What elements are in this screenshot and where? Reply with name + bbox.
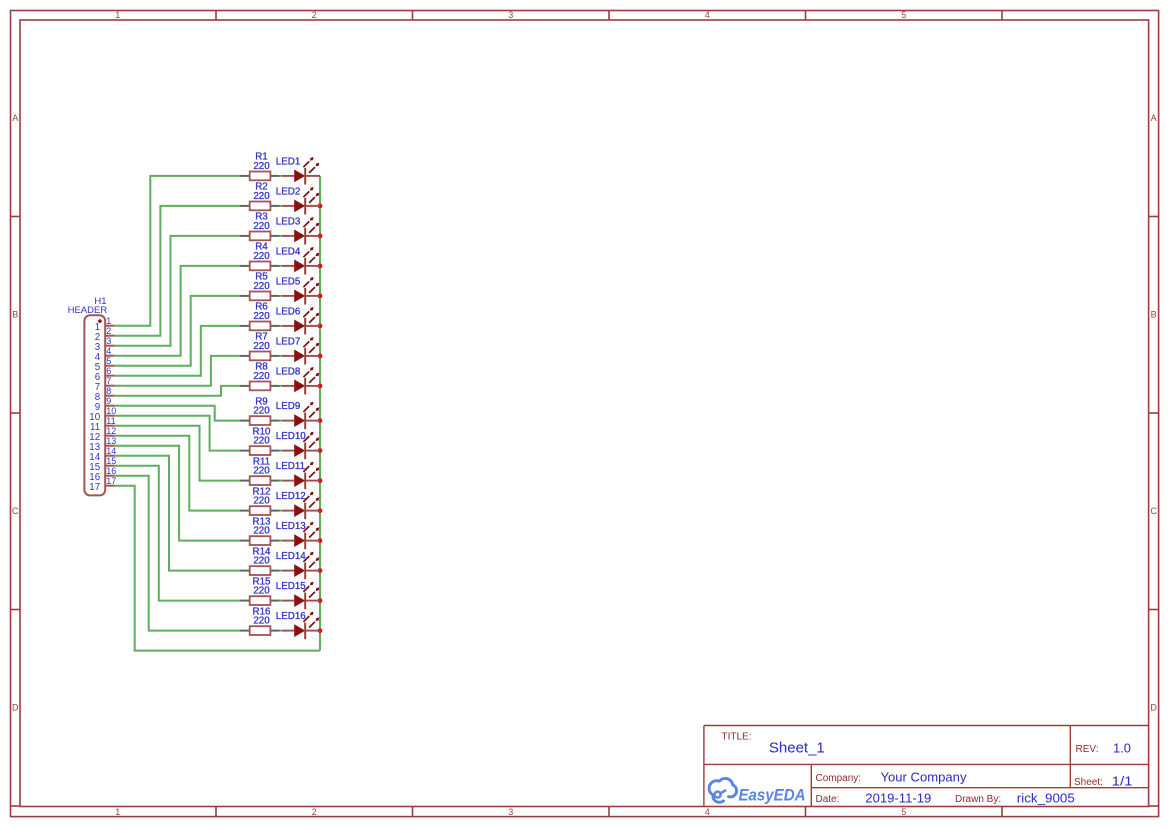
- resistor R3 220: [240, 212, 280, 241]
- LED LED6: [276, 306, 320, 334]
- wire R13 to LED13: [280, 540, 282, 542]
- svg-text:1: 1: [106, 316, 111, 326]
- svg-text:12: 12: [106, 426, 116, 436]
- junction at LED5 cathode: [318, 294, 323, 299]
- svg-text:LED14: LED14: [276, 551, 307, 562]
- junction at LED11 cathode: [318, 478, 323, 483]
- svg-text:1.0: 1.0: [1113, 742, 1131, 756]
- svg-text:3: 3: [508, 807, 513, 817]
- svg-text:R13: R13: [253, 516, 272, 527]
- resistor R16 220: [240, 606, 280, 635]
- svg-text:17: 17: [106, 476, 116, 486]
- svg-text:11: 11: [106, 416, 115, 426]
- svg-text:LED9: LED9: [276, 401, 301, 412]
- svg-text:3: 3: [106, 336, 111, 346]
- LED LED5: [276, 276, 320, 304]
- svg-text:TITLE:: TITLE:: [722, 731, 752, 742]
- svg-text:rick_9005: rick_9005: [1017, 792, 1075, 806]
- svg-text:5: 5: [901, 807, 906, 817]
- resistor R1 220: [240, 152, 280, 181]
- svg-text:LED12: LED12: [276, 491, 306, 502]
- wire R12 to LED12: [280, 510, 282, 512]
- svg-text:Your Company: Your Company: [881, 771, 968, 785]
- svg-text:R5: R5: [255, 272, 268, 283]
- resistor R10 220: [240, 426, 280, 455]
- svg-text:10: 10: [106, 406, 116, 416]
- svg-text:C: C: [1150, 506, 1157, 516]
- pin 10 of H1: [89, 406, 116, 423]
- resistor R8 220: [240, 362, 280, 391]
- pin 13 of H1: [89, 436, 116, 453]
- svg-text:14: 14: [106, 446, 116, 456]
- resistor R13 220: [240, 516, 280, 545]
- svg-text:R9: R9: [255, 396, 268, 407]
- wire R9 to LED9: [280, 420, 282, 422]
- LED LED12: [276, 491, 320, 519]
- LED LED4: [276, 246, 320, 274]
- svg-text:2: 2: [312, 10, 317, 20]
- wire H1 pin 8 to R8: [115, 386, 240, 396]
- wire H1 pin 14 to R14: [115, 456, 240, 571]
- LED LED15: [276, 581, 320, 609]
- wire H1 pin 17 to cathode bus (bottom return): [115, 486, 320, 651]
- svg-text:4: 4: [705, 807, 710, 817]
- svg-text:EasyEDA: EasyEDA: [739, 787, 806, 805]
- svg-text:7: 7: [106, 376, 111, 386]
- LED LED1: [276, 156, 320, 184]
- svg-text:R1: R1: [255, 152, 268, 163]
- wire R5 to LED5: [280, 295, 282, 297]
- pin 3 of H1: [95, 336, 115, 353]
- svg-text:9: 9: [106, 396, 111, 406]
- junction at LED16 cathode: [318, 628, 323, 633]
- wire H1 pin 5 to R5: [115, 296, 240, 366]
- resistor R2 220: [240, 182, 280, 211]
- svg-text:D: D: [1150, 702, 1157, 712]
- junction at LED6 cathode: [318, 324, 323, 329]
- svg-text:LED16: LED16: [276, 611, 307, 622]
- svg-text:6: 6: [106, 366, 111, 376]
- pin 6 of H1: [95, 366, 115, 383]
- pin 14 of H1: [89, 446, 116, 463]
- svg-text:1/1: 1/1: [1112, 774, 1133, 788]
- svg-text:R4: R4: [255, 242, 268, 253]
- wire H1 pin 10 to R10: [115, 416, 240, 451]
- LED LED8: [276, 366, 320, 394]
- junction at LED4 cathode: [318, 264, 323, 269]
- svg-text:R11: R11: [253, 456, 270, 467]
- svg-text:LED11: LED11: [276, 461, 305, 472]
- pin 1 of H1: [95, 316, 115, 333]
- svg-text:D: D: [12, 702, 19, 712]
- pin 2 of H1: [95, 326, 115, 343]
- resistor R4 220: [240, 242, 280, 271]
- resistor R7 220: [240, 332, 280, 361]
- pin 9 of H1: [95, 396, 115, 413]
- svg-text:R3: R3: [255, 212, 268, 223]
- wire R3 to LED3: [280, 235, 282, 237]
- wire H1 pin 15 to R15: [115, 466, 240, 601]
- wire R1 to LED1: [280, 175, 282, 177]
- wire H1 pin 7 to R7: [115, 356, 240, 386]
- wire R7 to LED7: [280, 355, 282, 357]
- svg-text:13: 13: [106, 436, 116, 446]
- LED LED7: [276, 336, 320, 364]
- wire cathode bus vertical: [319, 176, 321, 651]
- LED LED11: [276, 461, 320, 489]
- svg-text:Company:: Company:: [816, 773, 862, 784]
- resistor R11 220: [240, 456, 280, 485]
- wire R2 to LED2: [280, 205, 282, 207]
- svg-text:5: 5: [106, 356, 111, 366]
- svg-text:2: 2: [312, 807, 317, 817]
- resistor R15 220: [240, 576, 280, 605]
- LED LED16: [276, 611, 320, 639]
- svg-text:R10: R10: [253, 426, 272, 437]
- wire H1 pin 11 to R11: [115, 426, 240, 481]
- pin 17 of H1: [89, 476, 116, 493]
- resistor R12 220: [240, 486, 280, 515]
- LED LED10: [276, 431, 320, 459]
- svg-text:LED5: LED5: [276, 276, 301, 287]
- svg-text:4: 4: [705, 10, 710, 20]
- junction at LED10 cathode: [318, 448, 323, 453]
- svg-text:LED13: LED13: [276, 521, 307, 532]
- svg-text:1: 1: [115, 807, 120, 817]
- junction at LED2 cathode: [318, 204, 323, 209]
- EasyEDA logo: [709, 778, 805, 804]
- resistor R5 220: [240, 272, 280, 301]
- svg-text:4: 4: [106, 346, 111, 356]
- svg-text:HEADER: HEADER: [68, 305, 108, 316]
- svg-text:LED6: LED6: [276, 306, 301, 317]
- junction at LED9 cathode: [318, 418, 323, 423]
- svg-text:LED4: LED4: [276, 246, 301, 257]
- svg-text:15: 15: [106, 456, 116, 466]
- svg-text:LED2: LED2: [276, 186, 301, 197]
- wire H1 pin 13 to R13: [115, 446, 240, 541]
- resistor R6 220: [240, 302, 280, 331]
- pin 8 of H1: [95, 386, 115, 403]
- svg-text:A: A: [12, 113, 18, 123]
- pin 4 of H1: [95, 346, 115, 363]
- svg-text:16: 16: [106, 466, 116, 476]
- svg-text:1: 1: [115, 10, 120, 20]
- svg-text:3: 3: [508, 10, 513, 20]
- svg-text:LED1: LED1: [276, 156, 301, 167]
- svg-text:R8: R8: [255, 362, 268, 373]
- pin 12 of H1: [89, 426, 116, 443]
- resistor R9 220: [240, 396, 280, 425]
- wire R16 to LED16: [280, 630, 282, 632]
- wire R11 to LED11: [280, 480, 282, 482]
- svg-text:LED8: LED8: [276, 366, 301, 377]
- junction at LED15 cathode: [318, 598, 323, 603]
- wire H1 pin 16 to R16: [115, 476, 240, 631]
- svg-text:LED15: LED15: [276, 581, 307, 592]
- wire H1 pin 3 to R3: [115, 236, 240, 346]
- LED LED3: [276, 216, 320, 244]
- junction at LED14 cathode: [318, 568, 323, 573]
- junction at LED13 cathode: [318, 538, 323, 543]
- svg-text:B: B: [1151, 309, 1157, 319]
- svg-text:LED3: LED3: [276, 216, 301, 227]
- junction at LED12 cathode: [318, 508, 323, 513]
- svg-text:A: A: [1151, 113, 1157, 123]
- wire R10 to LED10: [280, 450, 282, 452]
- svg-text:17: 17: [89, 482, 100, 493]
- svg-text:R7: R7: [255, 332, 268, 343]
- svg-text:LED7: LED7: [276, 336, 301, 347]
- svg-text:8: 8: [106, 386, 111, 396]
- pin 15 of H1: [89, 456, 116, 473]
- connector H1 HEADER body: [84, 315, 105, 495]
- wire R15 to LED15: [280, 600, 282, 602]
- svg-text:Sheet_1: Sheet_1: [769, 740, 825, 757]
- wire H1 pin 9 to R9: [115, 406, 240, 421]
- LED LED9: [276, 401, 320, 429]
- wire H1 pin 4 to R4: [115, 266, 240, 356]
- junction at LED8 cathode: [318, 384, 323, 389]
- junction at LED7 cathode: [318, 354, 323, 359]
- svg-text:R12: R12: [253, 486, 271, 497]
- title block: [704, 726, 1149, 807]
- svg-text:R15: R15: [253, 576, 272, 587]
- svg-text:5: 5: [901, 10, 906, 20]
- pin 11 of H1: [90, 416, 116, 433]
- LED LED2: [276, 186, 320, 214]
- svg-text:R2: R2: [255, 182, 268, 193]
- LED LED13: [276, 521, 320, 549]
- wire H1 pin 2 to R2: [115, 206, 240, 336]
- LED LED14: [276, 551, 320, 579]
- pin 5 of H1: [95, 356, 115, 373]
- wire H1 pin 12 to R12: [115, 436, 240, 511]
- svg-text:B: B: [12, 309, 18, 319]
- svg-text:R6: R6: [255, 302, 268, 313]
- wire R4 to LED4: [280, 265, 282, 267]
- junction at LED3 cathode: [318, 234, 323, 239]
- svg-text:R16: R16: [253, 606, 272, 617]
- wire H1 pin 1 to R1: [115, 176, 240, 326]
- svg-text:Date:: Date:: [816, 794, 840, 805]
- wire H1 pin 6 to R6: [115, 326, 240, 376]
- svg-text:Drawn By:: Drawn By:: [955, 794, 1001, 805]
- resistor R14 220: [240, 546, 280, 575]
- svg-text:LED10: LED10: [276, 431, 307, 442]
- wire R8 to LED8: [280, 385, 282, 387]
- wire R14 to LED14: [280, 570, 282, 572]
- pin 7 of H1: [95, 376, 115, 393]
- pin 16 of H1: [89, 466, 116, 483]
- svg-text:2019-11-19: 2019-11-19: [865, 792, 931, 806]
- wire R6 to LED6: [280, 325, 282, 327]
- svg-text:Sheet:: Sheet:: [1074, 777, 1103, 788]
- svg-text:REV:: REV:: [1076, 744, 1099, 755]
- svg-text:R14: R14: [253, 546, 272, 557]
- svg-text:C: C: [12, 506, 19, 516]
- svg-text:2: 2: [106, 326, 111, 336]
